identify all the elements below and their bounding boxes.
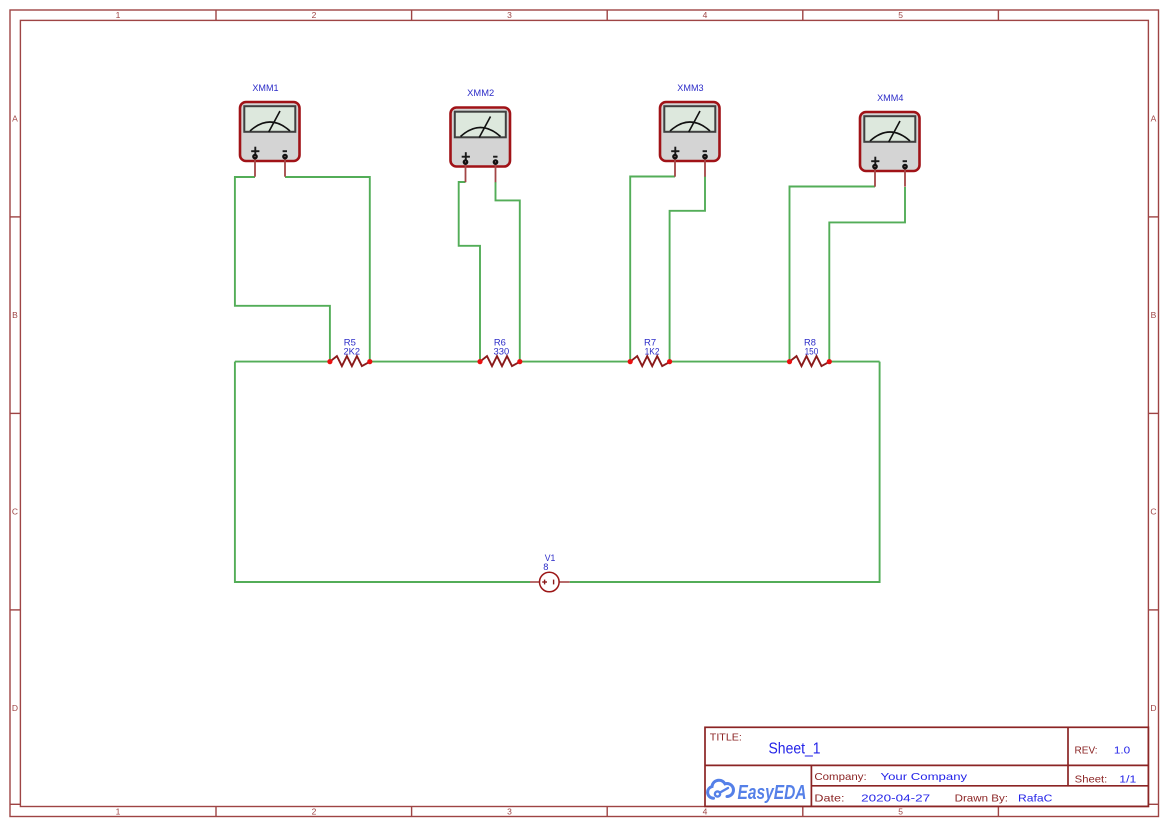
resistor R6 xyxy=(480,356,520,366)
svg-text:TITLE:: TITLE: xyxy=(710,732,742,744)
multimeter XMM1 xyxy=(240,102,300,177)
wire XMM2 plus to R6 pin1 xyxy=(459,182,480,362)
svg-text:EasyEDA: EasyEDA xyxy=(738,782,807,804)
svg-text:1/1: 1/1 xyxy=(1119,774,1136,786)
voltage source V1 xyxy=(530,572,570,592)
resistor R8 xyxy=(790,356,830,366)
svg-text:Your Company: Your Company xyxy=(881,771,969,783)
svg-text:REV:: REV: xyxy=(1075,745,1098,757)
junction R6 pin1 xyxy=(477,359,482,364)
svg-text:B: B xyxy=(1151,310,1157,320)
svg-text:4: 4 xyxy=(703,807,708,817)
svg-text:2: 2 xyxy=(312,10,317,20)
svg-text:D: D xyxy=(1150,703,1156,713)
svg-text:3: 3 xyxy=(507,807,512,817)
junction R6 pin2 xyxy=(517,359,522,364)
junction R8 pin2 xyxy=(827,359,832,364)
svg-text:4: 4 xyxy=(703,10,708,20)
junction R7 pin2 xyxy=(667,359,672,364)
svg-text:C: C xyxy=(12,507,18,517)
svg-text:3: 3 xyxy=(507,10,512,20)
multimeter XMM3 xyxy=(660,102,720,177)
wire right loop to V1 minus xyxy=(570,362,880,582)
svg-text:XMM2: XMM2 xyxy=(467,88,494,98)
wire XMM3 minus to R7 pin2 xyxy=(670,177,705,362)
wire XMM1 minus to R5 pin2 xyxy=(285,177,370,362)
junction R5 pin2 xyxy=(367,359,372,364)
EasyEDA logo xyxy=(708,780,807,804)
svg-text:1.0: 1.0 xyxy=(1114,745,1130,757)
svg-text:XMM4: XMM4 xyxy=(877,93,903,103)
wire XMM1 plus to R5 pin1 xyxy=(235,177,330,362)
svg-text:5: 5 xyxy=(898,807,903,817)
svg-text:RafaC: RafaC xyxy=(1018,793,1053,805)
svg-text:2K2: 2K2 xyxy=(344,346,361,356)
junction R5 pin1 xyxy=(327,359,332,364)
wire XMM4 plus to R8 pin1 xyxy=(790,187,876,362)
svg-text:A: A xyxy=(12,114,18,124)
junction R8 pin1 xyxy=(787,359,792,364)
svg-text:C: C xyxy=(1150,507,1156,517)
svg-text:2: 2 xyxy=(312,807,317,817)
junction R7 pin1 xyxy=(628,359,633,364)
svg-text:D: D xyxy=(12,703,18,713)
wire R8 to right corner xyxy=(829,361,879,363)
svg-text:1: 1 xyxy=(116,807,121,817)
svg-text:Drawn By:: Drawn By: xyxy=(955,793,1008,805)
svg-text:A: A xyxy=(1151,114,1157,124)
wire XMM3 plus to R7 pin1 xyxy=(630,177,675,362)
svg-text:Sheet_1: Sheet_1 xyxy=(769,740,821,757)
wire left loop to V1 plus xyxy=(235,362,530,582)
svg-text:Sheet:: Sheet: xyxy=(1075,774,1108,786)
resistor R5 xyxy=(330,356,370,366)
svg-text:B: B xyxy=(12,310,18,320)
resistor R7 xyxy=(630,356,670,366)
svg-text:1K2: 1K2 xyxy=(645,346,660,356)
svg-text:330: 330 xyxy=(494,346,510,356)
wire R7 to R8 xyxy=(670,361,790,363)
svg-text:5: 5 xyxy=(898,10,903,20)
wire XMM4 minus to R8 pin2 xyxy=(829,187,905,362)
svg-text:Date:: Date: xyxy=(814,793,844,805)
wire XMM2 minus to R6 pin2 xyxy=(496,182,520,362)
svg-text:2020-04-27: 2020-04-27 xyxy=(861,793,930,805)
svg-text:XMM3: XMM3 xyxy=(677,83,703,93)
multimeter XMM2 xyxy=(451,108,511,183)
svg-text:Company:: Company: xyxy=(814,771,866,783)
multimeter XMM4 xyxy=(860,112,920,187)
title block xyxy=(705,727,1148,806)
svg-text:XMM1: XMM1 xyxy=(252,83,278,93)
svg-text:8: 8 xyxy=(543,562,548,572)
wire R6 to R7 xyxy=(520,361,630,363)
svg-text:150: 150 xyxy=(805,346,819,356)
wire R5 to R6 xyxy=(370,361,480,363)
svg-text:1: 1 xyxy=(116,10,121,20)
wire bus left end to R5 xyxy=(235,361,330,363)
